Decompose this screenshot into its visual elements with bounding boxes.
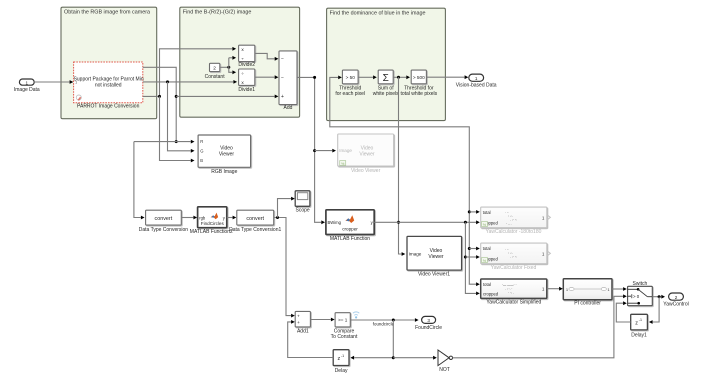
wire: Add output xyxy=(297,76,325,224)
wire: convert1 output with branches xyxy=(274,216,295,318)
svg-text:MATLAB Function2: MATLAB Function2 xyxy=(190,229,233,235)
grayed Video Viewer xyxy=(338,134,394,174)
wire: Divide1 to Add input2 xyxy=(255,75,279,79)
wire: PI controller to Switch xyxy=(612,287,627,291)
svg-text:+: + xyxy=(297,320,300,325)
wire: left drop to convert xyxy=(134,142,145,220)
svg-text:-1: -1 xyxy=(341,354,344,358)
svg-text:z: z xyxy=(337,356,340,362)
wire: constant to divide blocks xyxy=(220,56,236,74)
wire: foundcircle signal xyxy=(350,318,418,327)
svg-text:1: 1 xyxy=(475,76,478,81)
svg-text:YawCalculator -180to180: YawCalculator -180to180 xyxy=(486,229,542,235)
svg-text:2: 2 xyxy=(213,66,216,72)
divide Divide1 xyxy=(238,69,255,93)
svg-text:convert: convert xyxy=(155,216,173,222)
svg-text:>= 1: >= 1 xyxy=(338,318,348,323)
svg-text:B: B xyxy=(200,158,203,163)
svg-text:total: total xyxy=(483,246,491,251)
svg-text:cropper: cropper xyxy=(342,227,358,232)
scope block xyxy=(295,191,310,214)
svg-text:G: G xyxy=(200,148,203,153)
wire: Divide2 to Add input1 xyxy=(255,53,279,60)
wire: B branch down to viewer B port xyxy=(160,96,195,162)
svg-text:Scope: Scope xyxy=(296,207,310,213)
svg-text:total: total xyxy=(483,210,491,215)
svg-text:Video Viewer1: Video Viewer1 xyxy=(418,271,450,277)
svg-text:Find the B-(R/2)-(G/2) image: Find the B-(R/2)-(G/2) image xyxy=(183,9,252,15)
svg-text:convert: convert xyxy=(246,216,264,222)
PARROT Image Conversion xyxy=(74,62,144,110)
svg-text:z: z xyxy=(635,321,638,327)
svg-text:+: + xyxy=(297,314,300,319)
svg-text:· ·: .: · ·: . xyxy=(508,291,514,295)
wire: Add1 to Compare To Constant xyxy=(310,318,334,322)
wire: PARROT out2 (G) to Divide1 xyxy=(143,80,237,84)
svg-text:Image: Image xyxy=(409,252,422,257)
wire: to NOT input xyxy=(393,356,437,360)
svg-text:Support Package for Parrot Min: Support Package for Parrot Min xyxy=(74,76,144,82)
wire: Delay1 output loop to switch input3 xyxy=(616,301,630,322)
svg-text:2: 2 xyxy=(675,295,678,300)
svg-text:Delay1: Delay1 xyxy=(631,333,647,339)
svg-text:MATLAB Function: MATLAB Function xyxy=(330,236,370,242)
convert Data Type Conversion xyxy=(139,210,189,233)
PI controller xyxy=(563,279,612,307)
svg-text:BWimg: BWimg xyxy=(328,220,342,225)
outport 3 FoundCircle xyxy=(415,316,442,331)
wire: foundcircle down to Delay and NOT xyxy=(350,320,394,360)
threshold for total white pixels block xyxy=(400,70,437,97)
wire: total to YawCalculator -180to180 xyxy=(469,210,480,214)
zone: Obtain the RGB image from camera xyxy=(61,7,157,119)
svg-text:YawControl: YawControl xyxy=(663,302,688,308)
wire: PARROT out1 (R) xyxy=(143,67,178,143)
svg-text:Find the dominance of blue in: Find the dominance of blue in the image xyxy=(330,10,426,16)
Video Viewer1 xyxy=(407,236,462,277)
wire: sum to threshold total xyxy=(393,75,410,79)
svg-text:Σ: Σ xyxy=(383,73,389,84)
wire: Image Data to PARROT xyxy=(34,80,73,84)
svg-text:Image Data: Image Data xyxy=(14,87,40,93)
svg-text:Constant: Constant xyxy=(205,74,226,80)
wire: switch output down to Delay1 xyxy=(649,297,659,324)
sum of white pixels block xyxy=(373,70,399,97)
convert Data Type Conversion1 xyxy=(229,210,281,233)
svg-text:rgb: rgb xyxy=(199,215,206,220)
svg-text:· .. .: · .. . xyxy=(506,222,512,226)
svg-text:PARROT Image Conversion: PARROT Image Conversion xyxy=(77,104,140,110)
svg-text:. :· ·:: . :· ·: xyxy=(510,255,517,259)
wire: convert to FindCircles xyxy=(181,216,197,220)
wire: cropped distribution xyxy=(464,222,480,295)
wire: YawCalculator Simplified to PI controller xyxy=(547,287,563,291)
svg-text:Divide1: Divide1 xyxy=(238,87,255,93)
svg-text:3: 3 xyxy=(427,318,430,323)
svg-text:1: 1 xyxy=(566,288,568,292)
svg-text:YawCalculator Fixed: YawCalculator Fixed xyxy=(491,265,537,271)
svg-text:white pixels: white pixels xyxy=(373,91,399,97)
svg-text:Image: Image xyxy=(339,148,352,153)
svg-text:cropped: cropped xyxy=(483,291,499,296)
outport 2 YawControl xyxy=(663,293,688,308)
wire: Delay output loop to Add1 input2 xyxy=(288,320,334,358)
svg-text:Obtain the RGB image from came: Obtain the RGB image from camera xyxy=(64,9,150,15)
svg-text:−: − xyxy=(281,57,284,63)
wire: R net into Add input3 xyxy=(176,95,278,99)
wire: R net to viewer R port and left drop xyxy=(134,140,195,144)
svg-text:not installed: not installed xyxy=(95,83,122,89)
wire: to Vision-based Data xyxy=(426,75,468,79)
svg-text:Delay: Delay xyxy=(335,368,348,374)
svg-text:Viewer: Viewer xyxy=(359,152,375,158)
wire: cropped to YawCalculator Fixed xyxy=(465,255,479,259)
svg-text:Divide2: Divide2 xyxy=(238,62,255,68)
svg-text:%: % xyxy=(341,162,345,166)
YawCalculator Simplified xyxy=(481,279,547,306)
svg-text:Viewer: Viewer xyxy=(428,254,444,260)
MATLAB Function2 FindCircles xyxy=(190,207,233,235)
svg-text:R: R xyxy=(200,139,203,144)
compare to constant block xyxy=(331,313,358,340)
svg-text:Add: Add xyxy=(284,105,293,111)
svg-text:NOT: NOT xyxy=(439,367,450,373)
wire: branch up to Scope xyxy=(278,197,295,218)
outport 1 Vision-based Data xyxy=(456,74,497,89)
NOT gate xyxy=(438,350,453,373)
svg-text:> 500: > 500 xyxy=(413,75,425,80)
wire: branch to grayed Video Viewer xyxy=(315,149,336,153)
svg-text:for each pixel: for each pixel xyxy=(335,91,365,97)
svg-text:YawCalculator Simplified: YawCalculator Simplified xyxy=(486,300,541,306)
svg-text:Viewer: Viewer xyxy=(219,152,235,158)
svg-text:foundcircle: foundcircle xyxy=(373,322,395,327)
YawCalculator Fixed (grayed) xyxy=(481,243,551,271)
svg-text:> 50: > 50 xyxy=(346,75,356,80)
zone: Find the dominance of blue in the image xyxy=(327,8,446,120)
svg-text:Data Type Conversion1: Data Type Conversion1 xyxy=(229,227,281,233)
svg-text:total: total xyxy=(483,282,491,287)
svg-text:−: − xyxy=(281,75,284,81)
wire: PARROT out3 (B) xyxy=(143,47,236,98)
svg-text:total white pixels: total white pixels xyxy=(400,91,437,97)
delay Delay1 xyxy=(631,314,648,338)
delay Delay xyxy=(333,350,349,375)
svg-text:FoundCircle: FoundCircle xyxy=(415,325,442,331)
RGB Image viewer block xyxy=(198,135,251,175)
wire: threshold to sum xyxy=(358,75,377,79)
constant block xyxy=(205,63,226,80)
svg-text:Video Viewer: Video Viewer xyxy=(351,168,381,174)
svg-text:-1: -1 xyxy=(639,318,642,322)
svg-text:1: 1 xyxy=(608,288,610,292)
svg-text:RGB Image: RGB Image xyxy=(211,169,237,175)
wifi logging badge xyxy=(353,312,359,315)
inport 1 Image Data xyxy=(14,79,40,93)
svg-text:FindCircles: FindCircles xyxy=(201,221,225,226)
svg-text:1: 1 xyxy=(26,80,29,85)
svg-text:PI controller: PI controller xyxy=(574,301,601,307)
divide Divide2 xyxy=(238,45,255,68)
wire: NOT output to switch input2 xyxy=(453,294,627,357)
wire: total down to Video Viewer1 xyxy=(397,77,405,256)
switch xyxy=(628,281,653,306)
zone: Find the B-(R/2)-(G/2) image xyxy=(180,7,300,117)
MATLAB Function cropper xyxy=(326,210,374,242)
svg-text:Data Type Conversion: Data Type Conversion xyxy=(139,227,189,233)
svg-text:÷: ÷ xyxy=(241,72,244,77)
wire: total to YawCalculator Fixed xyxy=(469,247,480,251)
svg-text:> 0: > 0 xyxy=(633,294,640,299)
sum block Add xyxy=(279,51,297,111)
wire: G branch down to viewer G port xyxy=(168,82,195,153)
sum block Add1 xyxy=(295,311,310,334)
svg-text:Add1: Add1 xyxy=(297,328,309,334)
wire: loop into threshold for each pixel xyxy=(330,76,480,287)
svg-text:Vision-based Data: Vision-based Data xyxy=(456,83,497,89)
wire: switch output to YawControl xyxy=(652,295,665,299)
wire: FindCircles to convert1 xyxy=(227,216,237,220)
svg-text:To Constant: To Constant xyxy=(331,334,358,340)
svg-text:+: + xyxy=(281,94,284,100)
threshold for each pixel block xyxy=(335,70,365,97)
wire: cropper output (cropped) xyxy=(374,220,480,224)
YawCalculator -180to180 (grayed) xyxy=(481,207,551,235)
